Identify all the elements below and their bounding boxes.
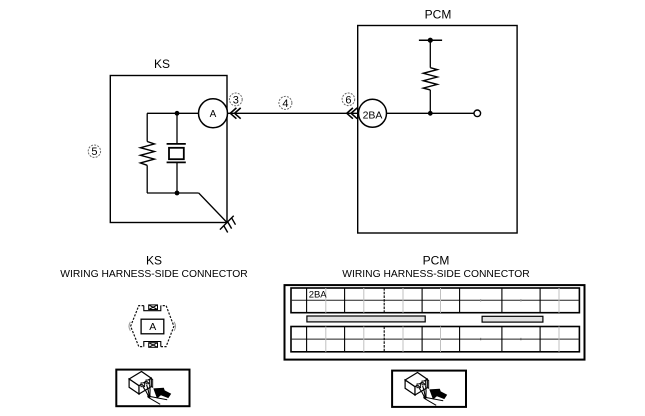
svg-text:KS: KS [154,57,170,71]
KS connector tip arcs [129,322,176,331]
icon box right [392,371,466,407]
terminal 2BA [359,99,387,127]
KS connector top notch [144,305,161,311]
svg-text:3: 3 [233,94,239,106]
wire PCM internal horizontal [387,112,475,114]
svg-text:WIRING HARNESS-SIDE CONNECTOR: WIRING HARNESS-SIDE CONNECTOR [60,269,247,280]
callout 3 [229,93,242,106]
PCM connector top grid block [291,288,579,313]
wire KS right branch lower lead [176,162,178,193]
PCM connector outer box [285,285,585,360]
wire PCM resistor lower lead [429,90,431,113]
icon box left [116,370,189,407]
resistor PCM [423,68,437,90]
node PCM junction [428,111,433,116]
KS connector bottom notch [144,342,161,348]
connector icon left [129,372,171,405]
svg-text:A: A [149,321,156,333]
PCM connector slot 2 [482,316,543,322]
svg-text:4: 4 [282,98,288,110]
wire KS left branch lower lead [146,165,148,193]
heading PCM connector [342,254,529,281]
connector icon right [405,373,447,406]
svg-text:5: 5 [91,146,97,158]
svg-text:WIRING HARNESS-SIDE CONNECTOR: WIRING HARNESS-SIDE CONNECTOR [342,269,529,280]
resistor KS [140,142,154,166]
wire KS right branch upper lead [176,113,178,144]
arrowheads at KS side [230,108,240,119]
node top junction [175,111,180,116]
svg-text:PCM: PCM [425,8,452,22]
wire KS left branch upper lead [146,113,148,141]
wire KS to PCM [228,112,359,114]
KS connector body hexagon [131,306,174,347]
node bottom junction [175,191,180,196]
PCM connector slot 1 [307,316,425,322]
KS connector cavity A [141,319,164,334]
svg-text:A: A [210,109,217,120]
svg-text:2BA: 2BA [363,110,383,122]
arrowheads at PCM side [347,108,357,119]
svg-text:2BA: 2BA [309,290,328,301]
terminal open circle [474,110,481,117]
piezo element KS [167,144,186,163]
wire KS internal bottom [147,192,199,194]
sensor terminal A [199,99,228,128]
wire diagonal to ground [199,193,227,223]
power rail bar [419,38,442,43]
svg-text:6: 6 [345,94,351,106]
callout 5 [88,145,100,158]
wire PCM resistor upper lead [429,40,431,67]
callout 6 [342,93,355,106]
box PCM [358,26,517,234]
wire KS internal top [147,112,199,114]
grid tick marks [481,299,521,340]
ground chassis symbol [220,216,236,233]
box KS [110,76,227,223]
svg-text:PCM: PCM [423,254,450,268]
PCM connector bottom grid block [291,327,579,352]
callout 4 [279,96,292,110]
heading KS connector [60,254,247,281]
svg-text:KS: KS [146,254,162,268]
